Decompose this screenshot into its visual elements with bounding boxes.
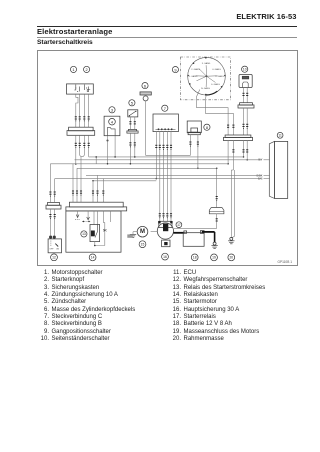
svg-text:N. GANG: N. GANG — [201, 87, 210, 90]
svg-text:3. GANG: 3. GANG — [202, 62, 211, 65]
svg-text:ON: ON — [56, 249, 60, 251]
svg-text:17: 17 — [177, 223, 181, 227]
svg-text:1: 1 — [72, 67, 74, 72]
svg-text:OFF: OFF — [50, 249, 55, 251]
svg-text:1. GANG: 1. GANG — [189, 75, 198, 78]
svg-text:14: 14 — [91, 256, 95, 260]
svg-text:5. GANG: 5. GANG — [215, 75, 224, 78]
svg-text:6: 6 — [144, 83, 146, 88]
svg-text:M: M — [140, 229, 145, 235]
svg-text:16: 16 — [163, 255, 167, 259]
svg-text:12: 12 — [52, 256, 56, 260]
svg-text:8: 8 — [206, 125, 208, 130]
svg-text:11: 11 — [278, 134, 282, 138]
svg-text:20: 20 — [229, 256, 233, 260]
svg-text:13: 13 — [82, 232, 86, 236]
svg-text:10: 10 — [243, 67, 247, 71]
svg-text:2: 2 — [86, 67, 88, 72]
svg-text:7: 7 — [164, 106, 166, 111]
svg-text:6. GANG: 6. GANG — [211, 83, 220, 86]
svg-text:2. GANG: 2. GANG — [191, 68, 200, 71]
svg-text:15: 15 — [141, 242, 145, 246]
svg-text:3: 3 — [111, 108, 113, 113]
svg-text:9: 9 — [174, 67, 176, 72]
svg-text:18: 18 — [193, 256, 197, 260]
svg-text:19: 19 — [212, 256, 216, 260]
svg-text:5: 5 — [131, 101, 133, 106]
svg-text:4. GANG: 4. GANG — [212, 68, 221, 71]
